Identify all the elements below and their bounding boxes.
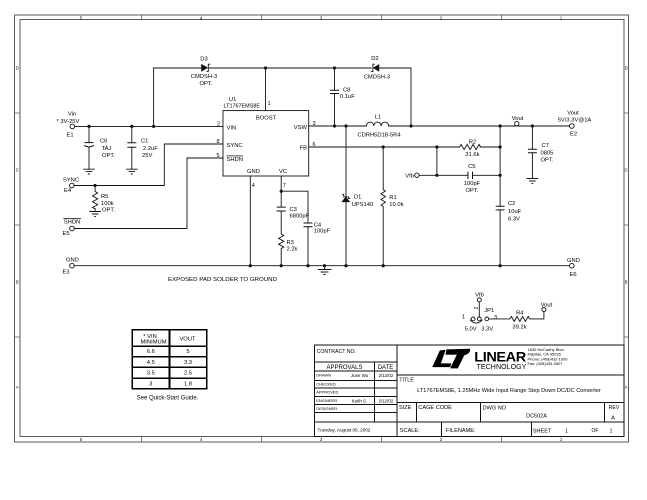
svg-text:June Wu: June Wu xyxy=(351,373,369,378)
wire C8 vertical upper xyxy=(334,68,336,90)
svg-text:3: 3 xyxy=(313,121,316,127)
wire FB divider drop xyxy=(436,147,438,175)
junction SYNC rail / R5 xyxy=(94,184,97,187)
svg-text:TITLE: TITLE xyxy=(399,377,414,383)
junction VSW rail / C8 xyxy=(333,124,336,127)
svg-text:CHECKED: CHECKED xyxy=(316,381,336,386)
svg-text:A: A xyxy=(611,416,615,422)
svg-text:10.0k: 10.0k xyxy=(389,202,403,208)
svg-text:A: A xyxy=(16,385,19,390)
svg-text:OPT.: OPT. xyxy=(541,157,554,163)
resistor R3 2.2k xyxy=(279,234,284,248)
wire R4 to Vout test point xyxy=(530,312,544,319)
svg-text:C: C xyxy=(16,168,19,173)
svg-text:GND: GND xyxy=(66,257,79,263)
wire Vfb terminal to C5 xyxy=(419,174,468,176)
wire pin1 BOOST drop xyxy=(265,68,267,111)
wire SYNC net E4 to pin8 xyxy=(74,144,223,186)
svg-text:1: 1 xyxy=(462,315,465,321)
node Vfb terminal xyxy=(415,173,419,177)
diode D2 CMDSH-3 xyxy=(371,64,379,71)
svg-text:1: 1 xyxy=(268,101,271,107)
wire C1 stub xyxy=(131,126,133,169)
svg-text:D: D xyxy=(625,66,628,71)
svg-text:R3: R3 xyxy=(287,240,294,246)
junction GND rail / pin4 xyxy=(249,264,252,267)
wire C8 vertical lower xyxy=(334,94,336,127)
wire VSW rail pin3 to L1 xyxy=(309,125,367,127)
junction VSW rail / D1 xyxy=(344,124,347,127)
svg-text:C4: C4 xyxy=(314,222,322,228)
wire VC to C4 branch xyxy=(281,191,308,266)
svg-text:100pF: 100pF xyxy=(314,229,331,235)
wire D1 vertical xyxy=(345,126,347,266)
svg-text:2: 2 xyxy=(217,121,220,127)
junction Vout rail / C7 xyxy=(531,124,534,127)
svg-text:E3: E3 xyxy=(62,270,69,276)
svg-text:OPT.: OPT. xyxy=(102,208,115,214)
ground symbol below C1 xyxy=(126,169,138,174)
svg-text:C6: C6 xyxy=(100,138,107,144)
svg-text:DESIGNER: DESIGNER xyxy=(316,406,337,411)
wire Vfb to JP1 pin2 xyxy=(478,302,480,317)
svg-text:1: 1 xyxy=(610,428,613,434)
svg-text:R1: R1 xyxy=(389,195,396,201)
main ground symbol xyxy=(318,270,332,275)
junction GND rail / ground symbol xyxy=(323,264,326,267)
svg-text:C: C xyxy=(625,168,628,173)
capacitor C1 2.2uF 25V xyxy=(127,143,136,147)
svg-text:2: 2 xyxy=(474,306,480,309)
junction BOOST rail / C8 xyxy=(333,66,336,69)
svg-text:TECHNOLOGY: TECHNOLOGY xyxy=(477,362,527,371)
svg-text:100k: 100k xyxy=(101,201,114,207)
svg-text:6800pF: 6800pF xyxy=(290,213,310,219)
svg-text:UPS140: UPS140 xyxy=(352,202,374,208)
svg-text:Vfb: Vfb xyxy=(475,292,484,298)
terminal E3 GND xyxy=(70,263,75,268)
junction BOOST rail / pin1 xyxy=(264,66,267,69)
svg-text:SCALE:: SCALE: xyxy=(400,428,420,434)
ground symbol below R5 xyxy=(89,212,101,217)
wire JP1 pin3 to R4 xyxy=(489,318,510,320)
svg-text:OPT.: OPT. xyxy=(200,81,213,87)
svg-text:SHDN: SHDN xyxy=(227,157,243,163)
svg-text:E6: E6 xyxy=(569,272,576,278)
junction GND rail / R3 xyxy=(280,264,283,267)
svg-text:2.2k: 2.2k xyxy=(287,247,298,253)
svg-text:DRAWN: DRAWN xyxy=(316,372,331,377)
zone ticks right xyxy=(624,113,629,337)
svg-text:LT1767EMS8E, 1.25MHz Wide Inpu: LT1767EMS8E, 1.25MHz Wide Input Range St… xyxy=(417,388,601,394)
svg-text:CMDSH-3: CMDSH-3 xyxy=(191,74,217,80)
svg-text:DWG NO: DWG NO xyxy=(483,405,507,411)
resistor R4 39.2k xyxy=(510,316,530,321)
svg-text:1.8: 1.8 xyxy=(184,382,192,388)
junction GND rail / R1 xyxy=(382,264,385,267)
svg-text:CAGE CODE: CAGE CODE xyxy=(418,405,452,411)
resistor R5 100k OPT xyxy=(93,192,98,209)
svg-text:3: 3 xyxy=(494,315,497,321)
wire R5 stub xyxy=(94,186,96,212)
svg-text:GND: GND xyxy=(247,169,260,175)
svg-text:VOUT: VOUT xyxy=(179,337,196,343)
svg-text:3: 3 xyxy=(149,382,152,388)
junction VIN rail / C1 xyxy=(130,125,133,128)
logo Linear Technology xyxy=(432,348,526,371)
resistor R2 31.6k xyxy=(460,144,481,149)
svg-text:2/12/02: 2/12/02 xyxy=(379,373,394,378)
zone ticks left xyxy=(15,113,21,337)
svg-text:D1: D1 xyxy=(354,195,361,201)
svg-text:CONTRACT NO.: CONTRACT NO. xyxy=(317,349,356,355)
node Vout test point xyxy=(515,121,519,125)
svg-text:APPROVALS: APPROVALS xyxy=(327,365,363,371)
svg-text:2.5: 2.5 xyxy=(184,371,192,377)
junction FB row / R1 xyxy=(382,145,385,148)
svg-text:SHDN: SHDN xyxy=(64,219,80,225)
svg-text:5: 5 xyxy=(217,153,220,159)
svg-text:C5: C5 xyxy=(468,164,475,170)
svg-text:Tuesday, August 06, 2002: Tuesday, August 06, 2002 xyxy=(318,428,371,433)
svg-text:Fax: (408)434-0507: Fax: (408)434-0507 xyxy=(528,361,564,366)
capacitor C4 100pF xyxy=(304,223,313,227)
capacitor C6 TAJ OPT (polarized) xyxy=(84,143,94,147)
svg-text:REV: REV xyxy=(609,405,620,411)
diode D3 CMDSH-3 OPT xyxy=(202,64,211,71)
svg-text:Vout: Vout xyxy=(512,116,524,122)
svg-text:E1: E1 xyxy=(66,133,73,139)
svg-text:DATE: DATE xyxy=(378,365,394,371)
svg-text:GND: GND xyxy=(567,258,580,264)
terminal E4 SYNC xyxy=(70,183,75,188)
svg-text:0.1uF: 0.1uF xyxy=(340,94,355,100)
svg-text:C1: C1 xyxy=(141,138,148,144)
capacitor C2 10uF 6.3V xyxy=(496,206,505,210)
svg-text:SYNC: SYNC xyxy=(227,143,243,149)
svg-text:4.5: 4.5 xyxy=(147,360,155,366)
svg-text:100pF: 100pF xyxy=(464,181,481,187)
svg-text:Keith S.: Keith S. xyxy=(352,398,367,403)
svg-text:25V: 25V xyxy=(142,153,152,159)
junction VIN rail / D3 branch xyxy=(152,125,155,128)
pin numbers xyxy=(217,101,316,189)
svg-text:MINIMUM: MINIMUM xyxy=(140,340,166,346)
wire R1 vertical xyxy=(382,147,384,266)
inductor L1 CDRH5D18-5R4 xyxy=(366,122,388,126)
svg-text:2.2uF: 2.2uF xyxy=(143,146,158,152)
wire R2 right lead xyxy=(480,146,500,148)
junction VSW rail / D2 branch xyxy=(409,124,412,127)
svg-text:LT1767EMS8E: LT1767EMS8E xyxy=(224,103,261,109)
svg-text:D2: D2 xyxy=(371,56,378,62)
svg-text:SIZE: SIZE xyxy=(399,405,412,411)
wire C7 branch xyxy=(531,126,533,179)
svg-text:C2: C2 xyxy=(508,201,515,207)
terminal E1 Vin xyxy=(70,124,75,129)
capacitor C8 0.1uF xyxy=(330,90,339,93)
svg-text:6.6: 6.6 xyxy=(147,349,155,355)
svg-text:OF: OF xyxy=(592,428,599,434)
wire C5 right lead xyxy=(473,174,501,176)
svg-text:C8: C8 xyxy=(343,87,350,93)
svg-text:C3: C3 xyxy=(290,207,297,213)
wire C6 stub xyxy=(88,126,90,169)
svg-text:VSW: VSW xyxy=(294,125,308,131)
svg-text:BOOST: BOOST xyxy=(256,116,277,122)
svg-text:ENGINEER: ENGINEER xyxy=(316,398,337,403)
wire output cap branch vertical xyxy=(499,126,501,266)
junction GND rail / C4 xyxy=(306,264,309,267)
svg-text:D: D xyxy=(16,66,19,71)
svg-text:3.3V: 3.3V xyxy=(481,327,493,333)
svg-text:5: 5 xyxy=(186,349,189,355)
svg-text:3.5: 3.5 xyxy=(147,371,155,377)
svg-text:E4: E4 xyxy=(64,188,72,194)
svg-text:6.3V: 6.3V xyxy=(508,216,520,222)
junction Vfb row / divider drop xyxy=(435,174,438,177)
wire main ground symbol stub xyxy=(324,266,326,270)
node Vout test point (jumper) xyxy=(542,308,546,312)
connector JP1 pins xyxy=(471,317,475,321)
ground symbol below C7 xyxy=(527,179,539,184)
junction FB row / divider drop xyxy=(435,145,438,148)
junction GND rail / C2 xyxy=(499,264,502,267)
terminal E6 GND xyxy=(570,263,575,268)
svg-text:Vout: Vout xyxy=(567,111,579,117)
svg-text:R4: R4 xyxy=(516,311,524,317)
jumper shunt arc pins 1-2 xyxy=(470,320,483,323)
terminal E2 Vout xyxy=(570,124,575,129)
svg-text:7: 7 xyxy=(283,183,286,189)
wire boost top rail left segment xyxy=(154,68,202,126)
svg-text:E5: E5 xyxy=(62,231,69,237)
svg-text:8: 8 xyxy=(217,139,220,145)
svg-text:JP1: JP1 xyxy=(484,308,494,314)
zone ticks bottom xyxy=(142,437,502,443)
ground symbol below C6 xyxy=(83,169,95,174)
capacitor C7 0805 OPT xyxy=(528,149,537,153)
svg-text:Vout: Vout xyxy=(541,303,553,309)
wire VIN rail E1 to pin2 xyxy=(75,125,223,127)
svg-text:R5: R5 xyxy=(101,194,108,200)
svg-text:4: 4 xyxy=(252,183,255,189)
svg-text:10uF: 10uF xyxy=(508,209,522,215)
svg-text:R2: R2 xyxy=(469,139,476,145)
svg-text:CMDSH-3: CMDSH-3 xyxy=(364,74,390,80)
svg-text:Vfb: Vfb xyxy=(405,173,414,179)
svg-text:B: B xyxy=(16,280,19,285)
wire SHDN net E5 to pin5 xyxy=(74,158,223,229)
svg-text:C7: C7 xyxy=(542,143,549,149)
junction VC node / C4 branch xyxy=(280,190,283,193)
resistor R1 10.0k xyxy=(381,190,385,207)
svg-text:39.2k: 39.2k xyxy=(512,324,526,330)
svg-text:3.3: 3.3 xyxy=(184,360,192,366)
svg-text:See Quick-Start Guide.: See Quick-Start Guide. xyxy=(137,396,199,402)
svg-text:5.0V: 5.0V xyxy=(465,327,477,333)
wire FB row pin6 to R2 xyxy=(309,146,460,148)
junction VIN rail / C6 xyxy=(87,125,90,128)
junction Vfb row / C2 branch xyxy=(499,174,502,177)
svg-text:CDRH5D18-5R4: CDRH5D18-5R4 xyxy=(357,132,401,138)
capacitor C3 6800pF xyxy=(277,207,286,211)
IC U1 LT1767EMS8E xyxy=(223,111,309,176)
wire boost top rail D3 cathode to D2 cathode xyxy=(209,67,371,69)
wire pin7 VC drop xyxy=(280,176,282,266)
wire boost top rail D2 anode to corner drop xyxy=(379,68,411,126)
svg-text:APPROVED: APPROVED xyxy=(316,389,338,394)
svg-text:6: 6 xyxy=(313,142,316,148)
svg-text:U1: U1 xyxy=(229,97,236,103)
wire VSW rail L1 to E2 xyxy=(389,125,570,127)
node Vfb test point xyxy=(477,298,481,302)
border frame inner xyxy=(20,20,624,437)
terminal E5 SHDN xyxy=(70,226,75,231)
svg-text:A: A xyxy=(625,385,628,390)
svg-text:E2: E2 xyxy=(570,132,577,138)
svg-text:EXPOSED PAD SOLDER TO GROUND: EXPOSED PAD SOLDER TO GROUND xyxy=(168,277,277,283)
wire GND rail E3 to E6 xyxy=(75,265,570,267)
svg-text:OPT.: OPT. xyxy=(466,188,479,194)
svg-text:SHEET: SHEET xyxy=(533,428,552,434)
svg-text:SYNC: SYNC xyxy=(63,177,79,183)
junction Vout rail / C2 branch xyxy=(499,124,502,127)
svg-text:31.6k: 31.6k xyxy=(465,152,479,158)
capacitor C5 100pF OPT xyxy=(468,172,473,179)
junction FB row / C2 branch xyxy=(499,145,502,148)
svg-text:D3: D3 xyxy=(200,56,207,62)
svg-text:VC: VC xyxy=(279,169,287,175)
svg-text:TAJ: TAJ xyxy=(102,146,112,152)
svg-text:Vin: Vin xyxy=(68,112,76,118)
svg-text:0805: 0805 xyxy=(541,150,554,156)
wire pin4 GND drop xyxy=(249,176,251,266)
diode D1 UPS140 xyxy=(342,194,350,202)
svg-text:1: 1 xyxy=(565,428,568,434)
svg-text:L1: L1 xyxy=(375,114,381,120)
svg-text:DC502A: DC502A xyxy=(526,414,547,420)
svg-text:VIN: VIN xyxy=(227,125,237,131)
svg-text:FB: FB xyxy=(300,146,308,152)
junction GND rail / D1 xyxy=(344,264,347,267)
svg-text:B: B xyxy=(625,280,628,285)
svg-text:2/12/02: 2/12/02 xyxy=(379,398,394,403)
svg-text:* 3V-25V: * 3V-25V xyxy=(57,119,80,125)
svg-text:5V/3.3V@1A: 5V/3.3V@1A xyxy=(558,117,592,123)
svg-text:FILENAME:: FILENAME: xyxy=(446,428,476,434)
svg-text:OPT.: OPT. xyxy=(102,153,115,159)
